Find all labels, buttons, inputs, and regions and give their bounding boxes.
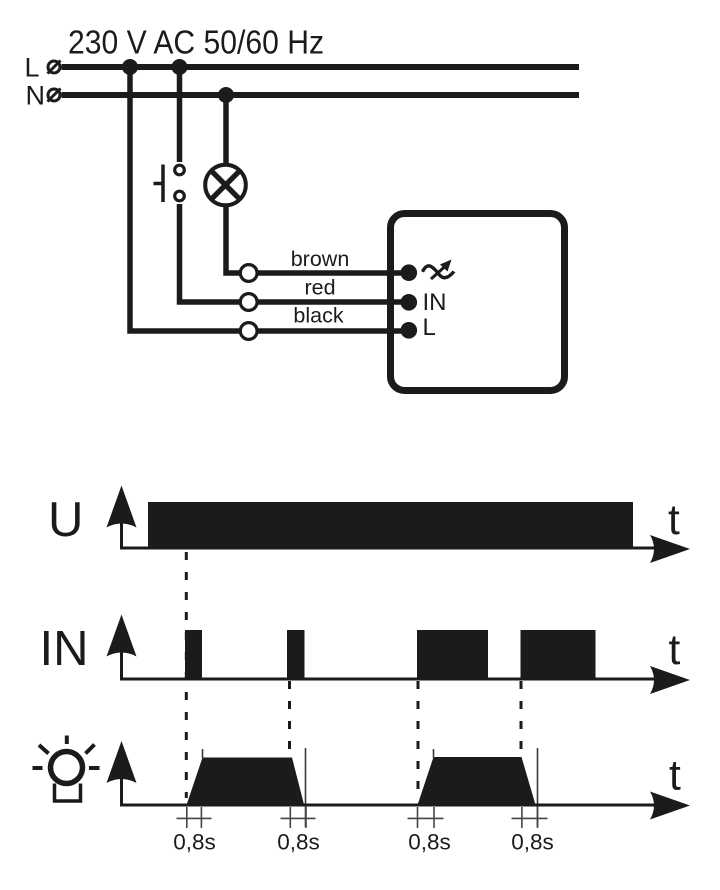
svg-text:U: U (48, 493, 83, 547)
svg-text:IN: IN (423, 289, 447, 316)
U vertical axis (120, 521, 123, 550)
lamp vertical axis arrowhead (107, 741, 137, 783)
IN horizontal axis arrowhead (650, 666, 690, 694)
U vertical axis arrowhead (107, 486, 137, 528)
box pin dot load (401, 264, 418, 281)
IN pulse 4 (521, 630, 596, 681)
IN vertical axis arrowhead (107, 615, 137, 657)
junction dot N1 (218, 87, 234, 103)
wire L bus (62, 64, 580, 70)
junction dot L2 (172, 59, 188, 75)
U bar (148, 502, 633, 550)
U horizontal axis arrowhead (650, 535, 690, 563)
bulb icon (33, 736, 100, 802)
IN pulse 1 (185, 630, 202, 681)
svg-text:0,8s: 0,8s (277, 830, 320, 855)
tick group 4 (512, 807, 548, 828)
svg-text:0,8s: 0,8s (173, 830, 216, 855)
IN pulse 2 (287, 630, 305, 681)
lamp vertical axis (120, 777, 123, 807)
dimmer output symbol (423, 260, 455, 280)
connector terminal red (240, 294, 257, 311)
wire red (switch to box) (180, 204, 409, 302)
wire switch upper (177, 67, 183, 162)
dashed line 1 (185, 552, 188, 798)
svg-text:t: t (669, 627, 681, 674)
IN horizontal axis (120, 678, 660, 681)
thin line trap2 fall (537, 748, 539, 827)
wire black (L to box) (130, 67, 408, 331)
IN pulse 3 (417, 630, 488, 681)
svg-text:red: red (304, 276, 335, 300)
svg-text:0,8s: 0,8s (511, 830, 554, 855)
U horizontal axis (120, 547, 660, 550)
svg-text:N: N (26, 81, 46, 111)
dashed line 3 (417, 681, 420, 797)
connector terminal brown (240, 265, 257, 282)
switch S1 push-button (154, 165, 185, 203)
junction dot L1 (122, 59, 138, 75)
terminal L (48, 61, 61, 74)
tick group 1 (177, 807, 212, 828)
lamp horizontal axis (120, 804, 660, 807)
svg-text:black: black (293, 304, 343, 328)
lamp horizontal axis arrowhead (650, 792, 690, 820)
dashed line 4 (520, 681, 523, 756)
thin line trap1 top-left (202, 749, 204, 758)
device box U1 (391, 214, 565, 391)
svg-text:0,8s: 0,8s (408, 830, 451, 855)
tick group 2 (281, 807, 316, 828)
svg-text:230 V AC 50/60 Hz: 230 V AC 50/60 Hz (68, 24, 324, 61)
IN vertical axis (120, 650, 123, 681)
box pin dot L (401, 322, 418, 339)
lamp trapezoid 2 (417, 757, 536, 807)
svg-text:t: t (669, 753, 681, 800)
connector terminal black (240, 323, 257, 340)
terminal N (48, 89, 61, 102)
svg-text:t: t (668, 497, 680, 544)
lamp trapezoid 1 (186, 758, 305, 807)
tick group 3 (408, 807, 444, 828)
svg-text:IN: IN (40, 622, 89, 676)
thin line trap2 top-left (433, 749, 435, 758)
wire brown (lamp to box) (226, 206, 408, 273)
svg-text:L: L (25, 53, 40, 83)
wire lamp upper (223, 95, 229, 165)
box pin dot IN (401, 294, 418, 311)
wire N bus (62, 92, 580, 98)
svg-text:L: L (423, 314, 436, 341)
dashed line 2 (288, 681, 291, 757)
svg-text:brown: brown (291, 247, 350, 271)
lamp E1 (205, 165, 246, 206)
thin line trap1 fall (305, 748, 307, 827)
